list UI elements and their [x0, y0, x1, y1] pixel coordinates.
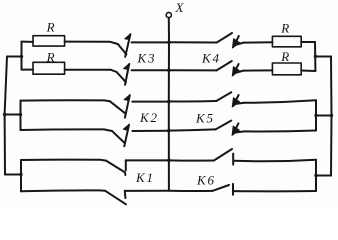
- wire left fork rows3-4: [20, 101, 22, 130]
- wire row2 left to contact: [65, 70, 117, 72]
- wire row3 left to contact: [21, 100, 110, 101]
- contact K2 upper (mover): [125, 95, 130, 117]
- contact K1 lower (blade): [105, 191, 126, 205]
- wire left connector rows1-2: [7, 56, 22, 58]
- contact K2 upper (arrow): [124, 95, 130, 101]
- wire right fork rows3-4: [315, 100, 317, 130]
- wire right connector rows3-4: [316, 115, 332, 117]
- wire row2 right lead: [243, 69, 272, 71]
- svg-text:K5: K5: [195, 111, 215, 126]
- contact K5 lower (mover): [233, 123, 238, 134]
- contact K3 upper (arrow): [125, 34, 131, 40]
- svg-text:K4: K4: [201, 51, 221, 66]
- svg-text:R: R: [46, 20, 55, 35]
- contact K4 lower (arrow): [232, 67, 239, 76]
- wire row5 left to contact: [21, 160, 106, 161]
- contact K2 upper (blade): [110, 101, 126, 114]
- contact K5 upper (mover): [233, 95, 238, 106]
- wire right bus: [330, 57, 333, 176]
- node left fork3 junction: [19, 173, 22, 176]
- wire row1 left to contact: [65, 42, 118, 44]
- wire right fork rows1-2: [314, 42, 316, 71]
- wire row4 center-right: [169, 129, 216, 130]
- node row4-center junction: [167, 129, 171, 133]
- contact K3 lower (arrow): [123, 63, 129, 69]
- wire center vertical from X: [168, 18, 170, 191]
- resistor R right-1: [272, 36, 301, 47]
- contact K5 lower (blade): [216, 121, 232, 130]
- contact K6 lower (blade): [212, 185, 229, 191]
- wire row6 left-center: [125, 190, 169, 192]
- contact K4 lower (mover): [233, 64, 238, 75]
- svg-text:R: R: [280, 20, 289, 35]
- wire row6 right to fork: [233, 190, 316, 192]
- contact K6 lower (fixed tick): [232, 184, 234, 195]
- wire left fork rows1-2: [21, 42, 23, 70]
- wire left bus: [5, 57, 7, 175]
- contact K6 upper (fixed tick): [232, 154, 234, 165]
- contact K3 lower (blade): [117, 72, 126, 82]
- contact K1 upper (blade): [106, 161, 125, 175]
- wire row2 left-center: [132, 69, 169, 71]
- node row2-center junction: [167, 69, 171, 73]
- contact K6 upper (blade): [214, 149, 232, 161]
- svg-text:X: X: [175, 0, 185, 15]
- contact K3 upper (mover): [125, 34, 130, 57]
- wire row1 right lead: [244, 41, 273, 43]
- wire row1 center-right: [169, 41, 217, 43]
- wire K5 lower arrow link: [235, 131, 244, 132]
- contact K5 upper (arrow): [232, 98, 239, 107]
- wire row5 right to fork: [234, 160, 316, 162]
- wire K4 lower arrow link: [235, 71, 244, 73]
- node row5-center junction: [167, 159, 171, 163]
- terminal X: [166, 12, 171, 17]
- wire row2 left lead: [22, 69, 34, 71]
- wire row6 left to contact: [21, 189, 105, 192]
- wire row3 right to fork: [244, 100, 316, 103]
- contact K2 lower (arrow): [123, 124, 129, 130]
- wire row2 right to fork: [301, 70, 315, 73]
- svg-text:R: R: [280, 49, 289, 64]
- contact K4 upper (blade): [217, 33, 232, 43]
- node right fork1 junction: [314, 55, 317, 58]
- wire row1 left-center: [132, 41, 169, 43]
- svg-text:K2: K2: [139, 110, 159, 125]
- wire row6 center-right: [169, 190, 212, 192]
- wire row4 left to contact: [21, 129, 113, 131]
- wire row3 left-center: [132, 101, 169, 103]
- contact K3 lower (mover): [125, 64, 129, 85]
- wire K4 upper arrow link: [235, 43, 244, 45]
- wire row5 left-center: [126, 159, 169, 161]
- node right bus mid junction: [330, 114, 333, 117]
- wire K5 upper arrow link: [235, 103, 244, 104]
- contact K5 lower (arrow): [232, 126, 239, 135]
- node row3-center junction: [167, 100, 171, 104]
- svg-text:K1: K1: [135, 170, 155, 185]
- svg-text:K3: K3: [137, 51, 157, 66]
- contact K4 upper (arrow): [232, 39, 239, 48]
- svg-text:R: R: [46, 49, 55, 64]
- node left fork2 junction: [19, 113, 22, 116]
- resistor R left-2: [33, 62, 65, 74]
- resistor R left-1: [33, 36, 65, 46]
- contact K2 lower (mover): [124, 125, 129, 146]
- wire left fork rows5-6: [20, 160, 22, 191]
- wire row4 right to fork: [244, 130, 316, 133]
- node right fork2 junction: [314, 114, 317, 117]
- wire row1 right to fork: [301, 41, 315, 43]
- wire row5 center-right: [169, 159, 214, 161]
- contact K5 upper (blade): [216, 92, 231, 101]
- wire right connector rows5-6: [316, 175, 331, 177]
- contact K4 upper (mover): [233, 36, 238, 47]
- wire left connector rows5-6: [5, 174, 21, 176]
- wire row4 left-center: [132, 130, 168, 132]
- node right fork3 junction: [314, 174, 317, 177]
- wire row2 center-right: [169, 69, 217, 71]
- wire row3 center-right: [169, 100, 216, 103]
- svg-text:K6: K6: [196, 172, 216, 187]
- contact K1 lower (fixed tick): [124, 191, 127, 198]
- contact K3 upper (blade): [118, 44, 127, 54]
- wire right fork rows5-6: [315, 160, 317, 191]
- wire right connector rows1-2: [315, 56, 331, 58]
- node row1-center junction: [167, 41, 171, 45]
- contact K1 upper (fixed tick): [125, 160, 127, 170]
- node left bus mid junction: [3, 113, 6, 116]
- contact K2 lower (blade): [112, 131, 125, 143]
- contact K4 lower (blade): [217, 61, 232, 70]
- node left fork1 junction: [20, 55, 23, 58]
- wire left connector rows3-4: [5, 114, 21, 116]
- wire row1 left lead: [22, 41, 34, 43]
- resistor R right-2: [272, 63, 301, 75]
